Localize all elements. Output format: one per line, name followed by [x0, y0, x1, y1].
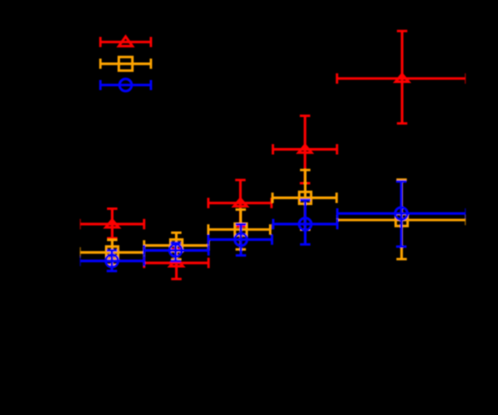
blue circle point 5 y-error bar [396, 182, 406, 247]
blue circle point 3 x-error bar [208, 234, 272, 244]
red triangle point 3 marker [234, 199, 247, 207]
red triangle point 5 x-error bar [337, 73, 465, 83]
red triangle point 4 x-error bar [273, 144, 337, 154]
red triangle point 1 x-error bar [80, 219, 144, 229]
blue circle point 2 y-error bar [170, 243, 180, 261]
blue circle point 5 marker [395, 207, 407, 219]
blue circle point 2 x-error bar [144, 245, 208, 255]
orange square point 3 y-error bar [236, 210, 246, 250]
blue circle point 1 marker [106, 255, 118, 267]
orange square point 1 x-error bar [80, 247, 144, 257]
orange square point 2 x-error bar [144, 240, 208, 250]
blue circle point 4 marker [299, 218, 311, 230]
red triangle point 5 y-error bar [397, 31, 407, 123]
blue circle point 3 marker [235, 233, 247, 245]
blue circle point 5 x-error bar [337, 208, 465, 218]
orange square point 5 marker [396, 214, 408, 226]
blue circle point 2 marker [169, 244, 181, 256]
orange square point 4 x-error bar [273, 193, 337, 203]
orange square point 5 y-error bar [396, 180, 406, 260]
red triangle point 4 marker [299, 145, 312, 153]
red triangle point 2 marker [170, 259, 183, 267]
red triangle point 5 marker [396, 74, 409, 82]
blue circle point 4 y-error bar [300, 200, 310, 244]
orange square point 1 marker [106, 247, 118, 259]
red triangle point 2 x-error bar [144, 258, 208, 268]
blue circle point 1 y-error bar [107, 250, 117, 271]
red triangle point 4 y-error bar [300, 116, 310, 183]
red triangle data series [80, 31, 465, 279]
blue circle point 4 x-error bar [273, 219, 337, 229]
red triangle point 3 x-error bar [208, 198, 271, 208]
legend entry: red triangle series [100, 37, 150, 48]
red triangle point 3 y-error bar [235, 180, 245, 227]
orange square point 1 y-error bar [107, 240, 117, 265]
orange square point 4 marker [299, 192, 311, 204]
legend entry: blue circle series [100, 79, 150, 91]
red triangle point 1 marker [106, 220, 119, 228]
blue circle point 1 x-error bar [80, 256, 144, 266]
orange square point 3 marker [235, 224, 247, 236]
orange square point 5 x-error bar [337, 215, 465, 225]
orange square point 2 marker [170, 240, 182, 252]
blue circle point 3 y-error bar [236, 224, 246, 255]
legend entry: orange square series [100, 57, 150, 71]
orange square data series [80, 170, 465, 265]
red triangle point 2 y-error bar [171, 249, 181, 279]
orange square point 4 y-error bar [300, 170, 310, 230]
orange square point 2 y-error bar [171, 233, 181, 260]
red triangle point 1 y-error bar [107, 209, 117, 239]
orange square point 3 x-error bar [208, 224, 270, 234]
blue circle data series [80, 182, 465, 272]
